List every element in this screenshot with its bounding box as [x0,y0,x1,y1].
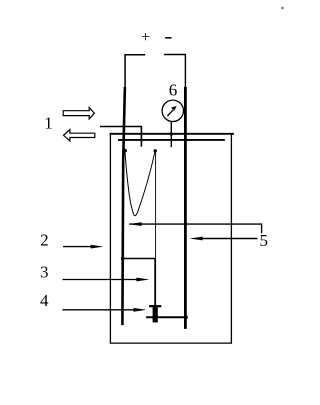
svg-text:2: 2 [40,230,49,249]
svg-text:3: 3 [40,262,49,281]
svg-text:4: 4 [40,291,49,310]
svg-text:1: 1 [44,114,53,133]
svg-text:+: + [141,29,150,46]
svg-text:6: 6 [169,81,178,100]
svg-text:5: 5 [259,231,268,250]
